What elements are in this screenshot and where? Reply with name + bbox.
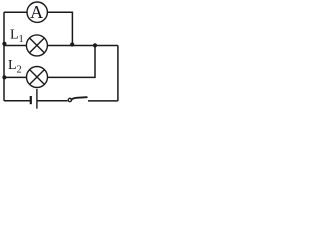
switch S bbox=[68, 97, 87, 102]
wire left vertical bbox=[3, 12, 5, 101]
svg-text:L1: L1 bbox=[10, 27, 24, 44]
lamp L2 bbox=[27, 67, 48, 88]
ammeter A bbox=[27, 2, 47, 22]
wire L1 row left bbox=[4, 45, 26, 47]
wire switch to battery bbox=[37, 100, 68, 102]
node junction L1 row / branch to L2 bbox=[93, 43, 97, 47]
svg-text:A: A bbox=[30, 2, 43, 22]
lamp L1 bbox=[26, 35, 47, 56]
wire bottom right bbox=[88, 100, 118, 102]
wire top row right bbox=[48, 12, 73, 44]
svg-text:L2: L2 bbox=[8, 58, 22, 75]
node junction top wire / L1 row bbox=[70, 42, 74, 46]
wire battery to left bbox=[4, 100, 31, 102]
node junction left vertical / L2 row bbox=[2, 75, 6, 79]
wire top row left bbox=[4, 11, 27, 13]
battery bbox=[31, 89, 37, 109]
wire branch to L2 bbox=[48, 46, 95, 78]
wire L2 row left bbox=[4, 76, 27, 78]
node junction left vertical / L1 row bbox=[2, 42, 6, 46]
wire right vertical bbox=[117, 46, 119, 101]
wire L1 row right bbox=[48, 45, 118, 47]
